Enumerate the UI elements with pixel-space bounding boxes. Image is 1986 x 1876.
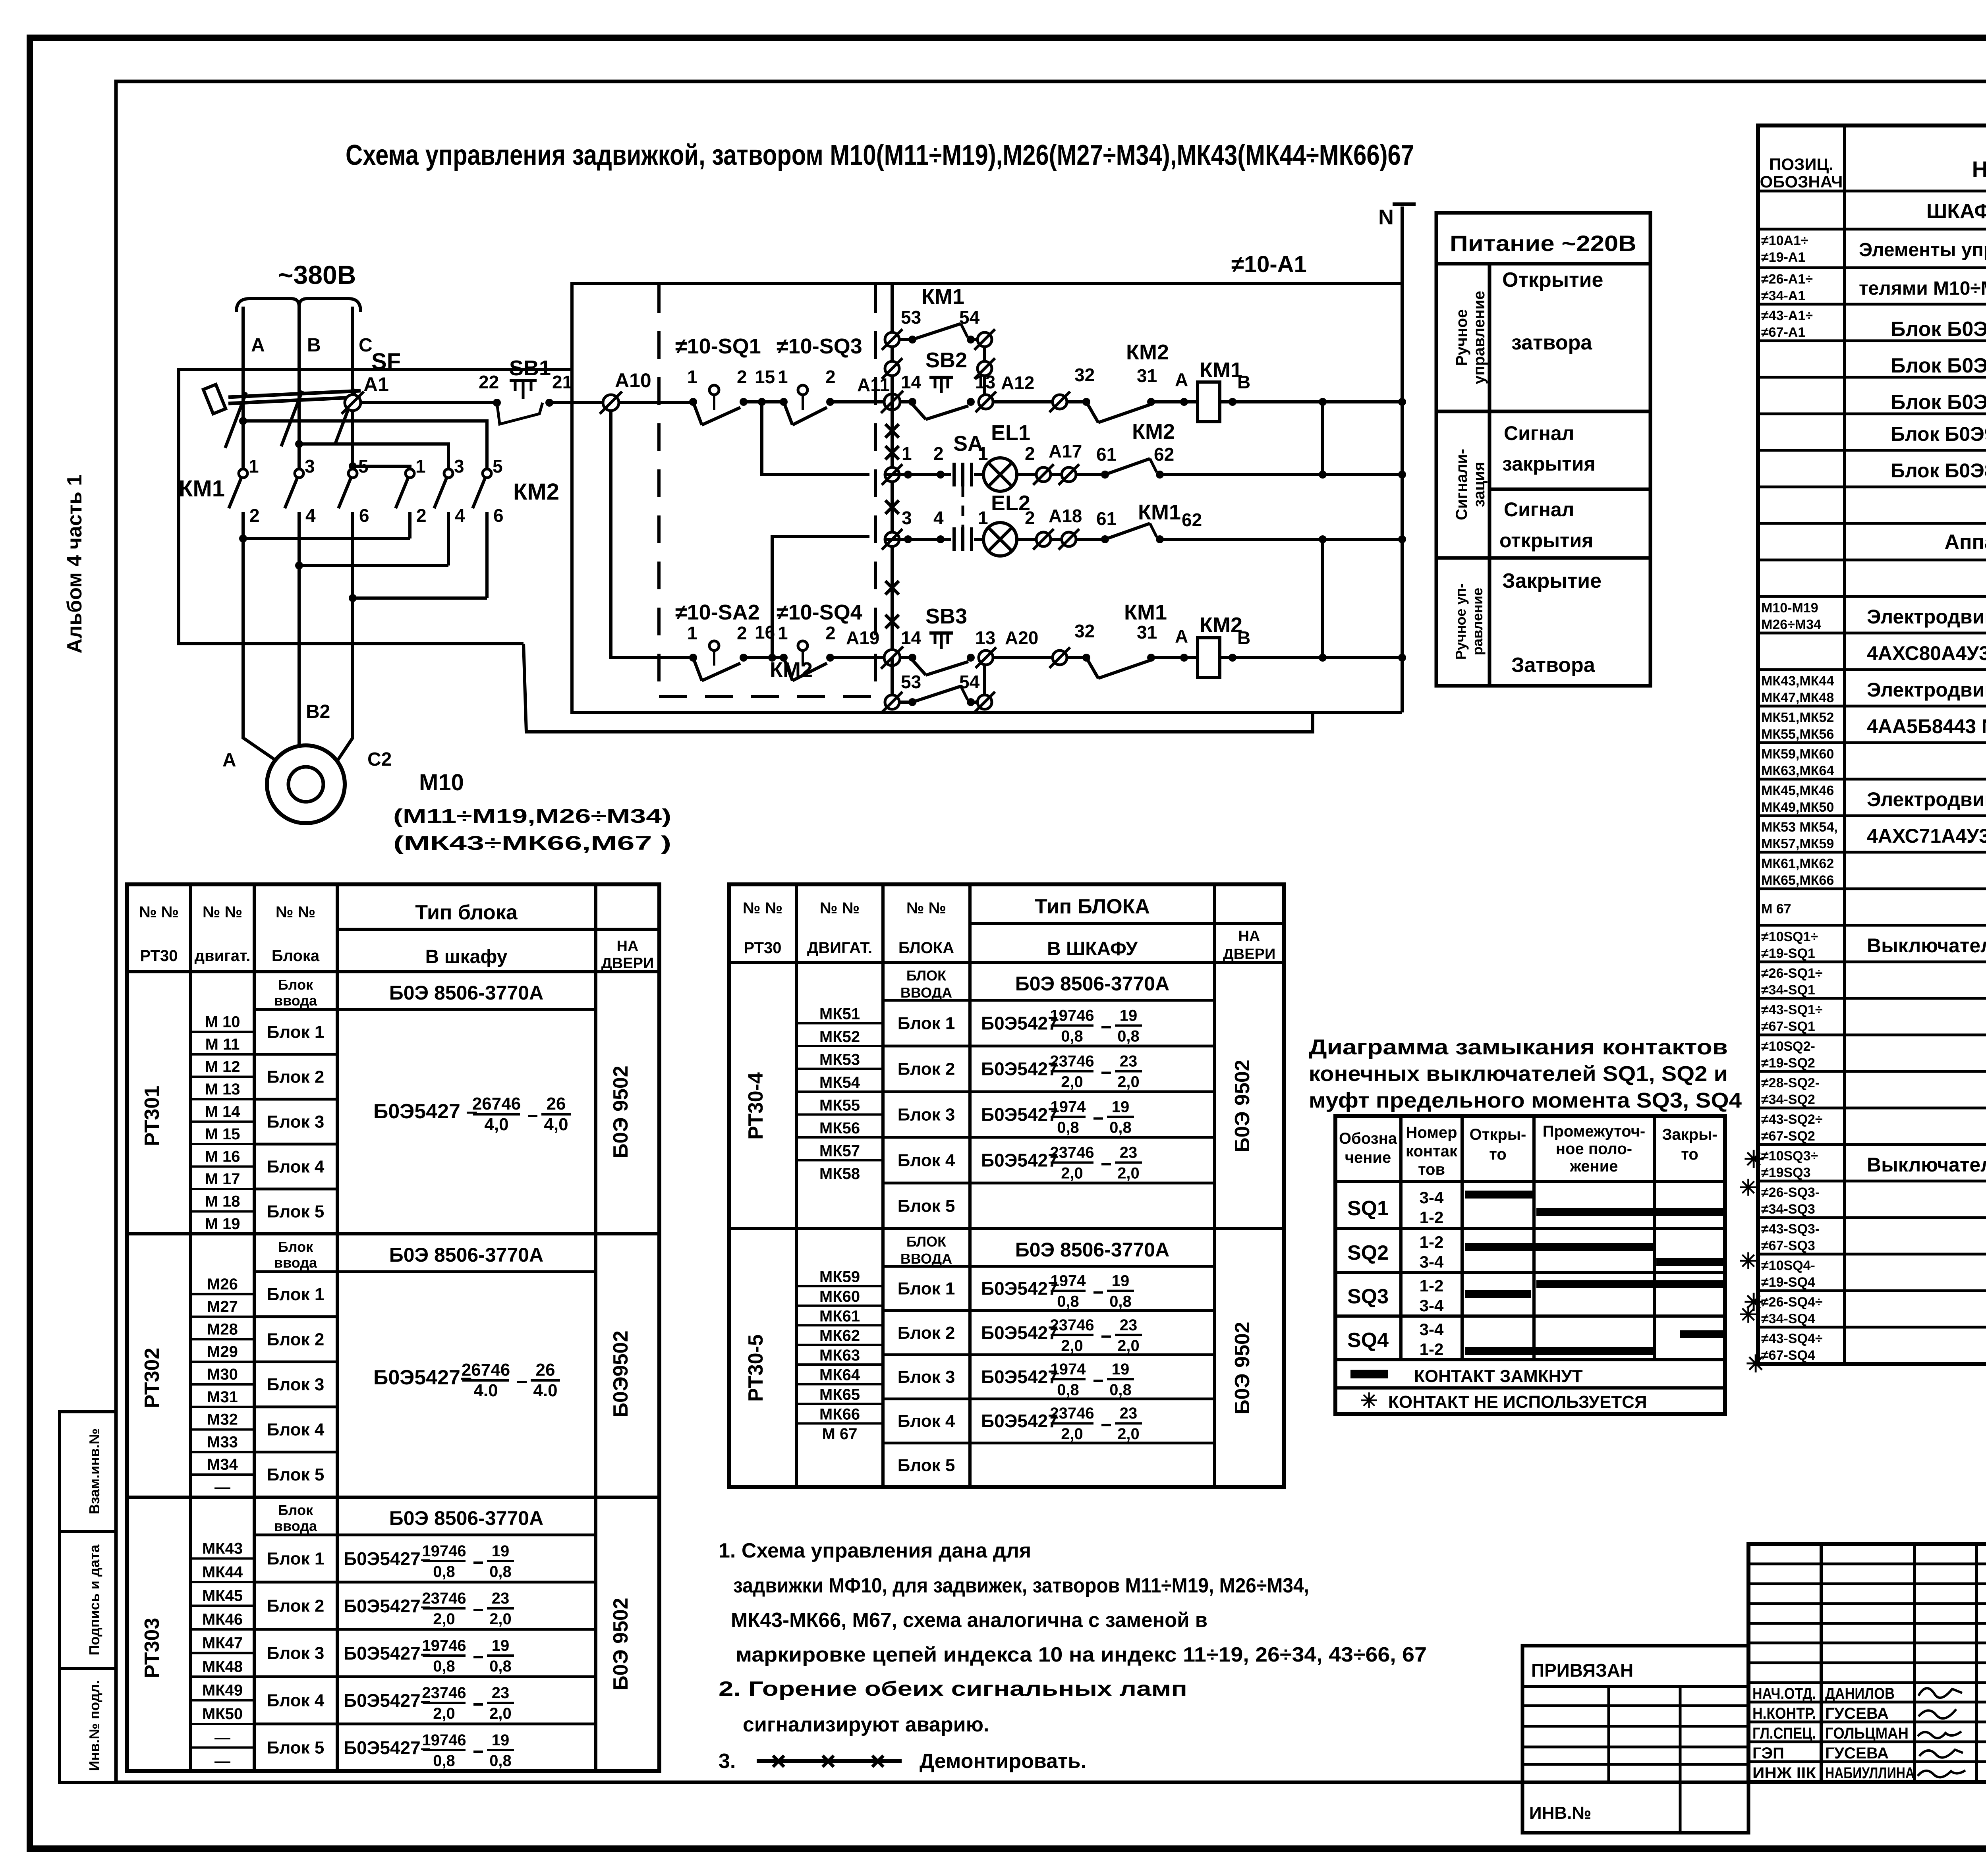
svg-text:SB1: SB1 bbox=[509, 356, 551, 380]
svg-text:26746: 26746 bbox=[472, 1094, 521, 1114]
svg-text:1. Схема управления дана дл: 1. Схема управления дана для bbox=[719, 1539, 1031, 1562]
svg-text:МК63,МК64: МК63,МК64 bbox=[1761, 763, 1834, 778]
svg-text:≠10-SQ4: ≠10-SQ4 bbox=[777, 600, 862, 624]
power legend closing bbox=[1502, 569, 1602, 677]
svg-text:Б0Э 8506-3770А: Б0Э 8506-3770А bbox=[389, 1507, 543, 1529]
svg-text:КМ2: КМ2 bbox=[1200, 613, 1242, 637]
svg-text:закрытия: закрытия bbox=[1502, 453, 1596, 475]
svg-text:зация: зация bbox=[1470, 462, 1488, 507]
svg-text:М 67: М 67 bbox=[822, 1425, 858, 1443]
svg-text:М29: М29 bbox=[207, 1343, 238, 1361]
svg-text:Блок 5: Блок 5 bbox=[267, 1738, 325, 1758]
svg-text:2: 2 bbox=[825, 367, 836, 387]
svg-text:2: 2 bbox=[737, 367, 747, 387]
svg-text:4,0: 4,0 bbox=[484, 1115, 508, 1134]
svg-text:2,0: 2,0 bbox=[1061, 1073, 1083, 1091]
svg-text:Блок Б0Э9502: Блок Б0Э9502 bbox=[1891, 423, 1986, 445]
contactor KM2 NC contact row1 bbox=[1082, 340, 1169, 423]
parts table header bbox=[1760, 155, 1986, 191]
svg-text:1: 1 bbox=[778, 367, 788, 387]
svg-text:≠19-А1: ≠19-А1 bbox=[1761, 250, 1805, 265]
svg-text:26: 26 bbox=[547, 1094, 566, 1114]
svg-text:КМ2: КМ2 bbox=[1126, 340, 1169, 364]
svg-text:ШКАФ РТ30-81: ШКАФ РТ30-81 bbox=[1926, 200, 1986, 223]
svg-text:М26÷М34: М26÷М34 bbox=[1761, 617, 1821, 632]
diagram title bbox=[1309, 1035, 1742, 1112]
svg-text:конечных выключателей SQ1, SQ: конечных выключателей SQ1, SQ2 и bbox=[1309, 1062, 1728, 1086]
contactor coil KM1 bbox=[1198, 358, 1250, 422]
svg-text:3: 3 bbox=[454, 456, 464, 477]
svg-text:ГУСЕВА: ГУСЕВА bbox=[1825, 1705, 1889, 1722]
svg-text:62: 62 bbox=[1182, 510, 1202, 530]
table 1 section RT302 bbox=[141, 1239, 632, 1496]
svg-text:62: 62 bbox=[1154, 444, 1174, 465]
parts row blok2 bbox=[1891, 348, 1986, 388]
svg-text:Б0Э 9502: Б0Э 9502 bbox=[609, 1065, 632, 1158]
node 61 row3 bbox=[1096, 508, 1117, 543]
svg-text:Обозна: Обозна bbox=[1339, 1130, 1397, 1147]
contact SQ4 bbox=[744, 623, 836, 681]
parts row elementy2 bbox=[1761, 272, 1986, 303]
svg-text:0,8: 0,8 bbox=[1109, 1293, 1132, 1310]
svg-text:Блок 4: Блок 4 bbox=[267, 1157, 325, 1177]
svg-text:≠34-SQ1: ≠34-SQ1 bbox=[1761, 982, 1815, 998]
svg-text:0,8: 0,8 bbox=[1117, 1028, 1140, 1045]
svg-text:SQ4: SQ4 bbox=[1347, 1329, 1389, 1352]
left margin stamp column bbox=[60, 1412, 116, 1782]
svg-text:Б0Э5427: Б0Э5427 bbox=[981, 1059, 1058, 1079]
svg-text:М 17: М 17 bbox=[205, 1170, 240, 1188]
relay cabinet boundary bbox=[572, 284, 1402, 712]
svg-text:Б0Э5427 –: Б0Э5427 – bbox=[373, 1100, 477, 1123]
svg-text:Демонтировать.: Демонтировать. bbox=[920, 1750, 1086, 1773]
block table 1 header bbox=[139, 901, 654, 972]
node 15 bbox=[755, 367, 775, 406]
svg-text:Блок 4: Блок 4 bbox=[267, 1691, 325, 1710]
svg-text:Открытие: Открытие bbox=[1502, 268, 1603, 291]
svg-text:≠19-SQ1: ≠19-SQ1 bbox=[1761, 946, 1815, 961]
svg-text:32: 32 bbox=[1074, 621, 1095, 641]
svg-text:МК56: МК56 bbox=[819, 1119, 860, 1137]
svg-text:А19: А19 bbox=[846, 627, 879, 648]
label ~380V bbox=[278, 260, 356, 290]
parts row shkaf bbox=[1926, 200, 1986, 223]
svg-text:Альбом 4 часть 1: Альбом 4 часть 1 bbox=[63, 475, 86, 654]
motor feed wire A bbox=[243, 538, 280, 763]
svg-text:МК59: МК59 bbox=[819, 1268, 860, 1285]
contactor coil KM2 bbox=[1198, 613, 1250, 677]
svg-text:РТ30-5: РТ30-5 bbox=[744, 1334, 767, 1402]
node A12 bbox=[976, 372, 1053, 412]
terminal row3 bbox=[1059, 529, 1105, 550]
demontage mark mid bbox=[885, 500, 899, 514]
parts row sq1b bbox=[1761, 966, 1823, 998]
svg-text:≠10-SA2: ≠10-SA2 bbox=[675, 600, 760, 624]
svg-text:0,8: 0,8 bbox=[433, 1658, 455, 1675]
node A19 bbox=[846, 627, 903, 669]
svg-text:Б0Э5427: Б0Э5427 bbox=[981, 1411, 1058, 1431]
wire SQ4 to chain bbox=[830, 656, 914, 659]
svg-text:Блок 1: Блок 1 bbox=[898, 1014, 955, 1033]
svg-text:ИНВ.№: ИНВ.№ bbox=[1529, 1803, 1591, 1823]
svg-text:затвора: затвора bbox=[1511, 331, 1592, 354]
node A row1 bbox=[1151, 369, 1198, 406]
svg-text:МК51: МК51 bbox=[819, 1006, 860, 1023]
svg-text:М30: М30 bbox=[207, 1366, 238, 1383]
wire row4 feed bbox=[611, 410, 693, 658]
svg-text:≠26-А1÷: ≠26-А1÷ bbox=[1761, 272, 1813, 287]
svg-text:М 14: М 14 bbox=[205, 1103, 241, 1121]
demontage marks upper bbox=[885, 424, 899, 459]
motor feed wire C bbox=[336, 598, 353, 763]
svg-text:Выключатель путевой: Выключатель путевой bbox=[1867, 934, 1986, 957]
svg-text:1: 1 bbox=[249, 456, 259, 477]
svg-text:—: — bbox=[214, 1478, 230, 1496]
svg-text:1: 1 bbox=[978, 508, 988, 528]
wire link row3-row4 bbox=[1321, 539, 1324, 658]
svg-text:МК50: МК50 bbox=[202, 1705, 243, 1723]
parts row sq2 bbox=[1761, 1039, 1815, 1071]
svg-text:1974: 1974 bbox=[1051, 1361, 1086, 1378]
svg-text:КМ1: КМ1 bbox=[922, 285, 964, 309]
svg-text:16: 16 bbox=[755, 622, 775, 643]
svg-text:задвижки МФ10, для задвижек, з: задвижки МФ10, для задвижек, затворов М1… bbox=[733, 1574, 1309, 1597]
svg-text:23746: 23746 bbox=[422, 1684, 466, 1702]
svg-text:открытия: открытия bbox=[1499, 529, 1593, 552]
svg-text:Блок: Блок bbox=[278, 977, 313, 993]
svg-text:то: то bbox=[1681, 1146, 1698, 1163]
svg-text:0,8: 0,8 bbox=[1057, 1293, 1079, 1310]
inv no box bbox=[1522, 1782, 1748, 1833]
svg-text:ДАНИЛОВ: ДАНИЛОВ bbox=[1825, 1685, 1895, 1702]
svg-text:23: 23 bbox=[1120, 1316, 1138, 1334]
contactor KM1 main contacts bbox=[179, 456, 369, 598]
svg-text:сигнализируют аварию.: сигнализируют аварию. bbox=[743, 1713, 989, 1736]
svg-text:МК58: МК58 bbox=[819, 1165, 860, 1183]
parts row blok1 bbox=[1761, 308, 1986, 352]
contactor KM1 aux contact row3 bbox=[1101, 500, 1202, 543]
svg-text:КМ1: КМ1 bbox=[1138, 500, 1181, 524]
svg-text:НА: НА bbox=[617, 938, 639, 955]
svg-text:19746: 19746 bbox=[422, 1637, 466, 1654]
svg-text:23: 23 bbox=[1120, 1053, 1138, 1070]
svg-text:—: — bbox=[214, 1752, 230, 1770]
svg-text:0,8: 0,8 bbox=[433, 1752, 455, 1770]
svg-text:N: N bbox=[1378, 205, 1394, 229]
branch wire phase C to KM2 bbox=[349, 462, 410, 470]
contactor KM2 aux contact row2 bbox=[1101, 420, 1175, 479]
parts row sq3b bbox=[1761, 1185, 1820, 1217]
svg-text:≠10А1÷: ≠10А1÷ bbox=[1761, 233, 1808, 248]
svg-text:телями М10÷М19,М26÷М34,МК43-МК: телями М10÷М19,М26÷М34,МК43-МК66,67 bbox=[1859, 278, 1986, 299]
diagram legend bbox=[1350, 1366, 1647, 1413]
svg-text:✳: ✳ bbox=[1739, 1302, 1758, 1327]
svg-text:1: 1 bbox=[902, 443, 912, 464]
svg-text:МК48: МК48 bbox=[202, 1658, 243, 1675]
circuit breaker SF bbox=[203, 349, 401, 448]
parts row blok3 bbox=[1891, 385, 1986, 425]
svg-text:МК45,МК46: МК45,МК46 bbox=[1761, 783, 1834, 798]
svg-text:2,0: 2,0 bbox=[1061, 1165, 1083, 1182]
svg-text:19: 19 bbox=[1112, 1098, 1130, 1116]
parts row sq1c bbox=[1761, 1002, 1823, 1034]
power legend signal bbox=[1453, 449, 1488, 520]
svg-text:5: 5 bbox=[358, 456, 369, 477]
svg-text:А1: А1 bbox=[363, 373, 389, 396]
svg-text:Электродвигатель~380В: Электродвигатель~380В bbox=[1867, 679, 1986, 701]
phase swap wire 2 bbox=[295, 562, 448, 569]
svg-text:14: 14 bbox=[901, 372, 922, 392]
svg-text:МК61: МК61 bbox=[819, 1307, 860, 1325]
contactor KM2 aux contact 53-54 bbox=[770, 658, 995, 712]
svg-text:3.: 3. bbox=[719, 1750, 736, 1773]
svg-text:2,0: 2,0 bbox=[1117, 1165, 1140, 1182]
wire N rail bbox=[1378, 204, 1416, 712]
svg-text:SB2: SB2 bbox=[925, 348, 967, 372]
power legend close signal bbox=[1502, 422, 1596, 475]
svg-text:21: 21 bbox=[552, 372, 572, 392]
asterisk marks bbox=[1744, 1146, 1766, 1377]
svg-text:МК49,МК50: МК49,МК50 bbox=[1761, 800, 1834, 815]
svg-text:19746: 19746 bbox=[1050, 1007, 1094, 1025]
svg-text:2,0: 2,0 bbox=[433, 1610, 455, 1628]
svg-text:КОНТАКТ НЕ ИСПОЛЬЗУЕТСЯ: КОНТАКТ НЕ ИСПОЛЬЗУЕТСЯ bbox=[1388, 1392, 1647, 1412]
contactor KM1 NC contact row4 bbox=[1082, 600, 1167, 678]
power legend manual upper bbox=[1453, 291, 1488, 384]
svg-text:ПРИВЯЗАН: ПРИВЯЗАН bbox=[1531, 1660, 1633, 1681]
wire row3 feed bbox=[772, 537, 869, 658]
svg-text:SQ2: SQ2 bbox=[1347, 1241, 1389, 1264]
power legend opening bbox=[1502, 268, 1603, 354]
svg-text:Схема управления задвижкой,: Схема управления задвижкой, затвором М10… bbox=[346, 139, 1414, 171]
parts row sq2b bbox=[1761, 1075, 1820, 1107]
svg-text:0,8: 0,8 bbox=[489, 1752, 512, 1770]
svg-text:Инв.№ подл.: Инв.№ подл. bbox=[86, 1680, 102, 1771]
svg-text:2: 2 bbox=[249, 505, 260, 526]
svg-text:Блока: Блока bbox=[272, 947, 320, 965]
svg-text:≠34-SQ4: ≠34-SQ4 bbox=[1761, 1311, 1815, 1326]
svg-text:✳: ✳ bbox=[1739, 1249, 1758, 1274]
svg-text:МК65: МК65 bbox=[819, 1386, 860, 1403]
svg-text:Блок Б0Э5427-: Блок Б0Э5427- bbox=[1891, 354, 1986, 377]
svg-text:≠19SQ3: ≠19SQ3 bbox=[1761, 1165, 1811, 1180]
svg-text:то: то bbox=[1489, 1146, 1507, 1163]
lamp EL1 bbox=[983, 421, 1037, 491]
svg-text:А18: А18 bbox=[1049, 506, 1082, 526]
svg-text:КМ2: КМ2 bbox=[770, 658, 813, 682]
power legend open signal bbox=[1499, 498, 1593, 552]
svg-text:2,0: 2,0 bbox=[1117, 1073, 1140, 1091]
svg-text:МК63: МК63 bbox=[819, 1347, 860, 1364]
svg-text:4АХС71А4У3 N= 0,65 кВт: 4АХС71А4У3 N= 0,65 кВт bbox=[1867, 825, 1986, 847]
svg-text:М 16: М 16 bbox=[205, 1148, 240, 1166]
svg-text:МК47,МК48: МК47,МК48 bbox=[1761, 690, 1834, 705]
svg-text:≠10-SQ3: ≠10-SQ3 bbox=[777, 334, 862, 358]
node A20 bbox=[976, 627, 1053, 668]
svg-text:3-4: 3-4 bbox=[1420, 1188, 1444, 1207]
brace 380V bbox=[236, 299, 361, 312]
title block signatures bbox=[1918, 1688, 1965, 1777]
svg-text:ГУСЕВА: ГУСЕВА bbox=[1825, 1745, 1889, 1762]
svg-text:26: 26 bbox=[536, 1360, 555, 1380]
parts row motor3c bbox=[1761, 856, 1834, 888]
svg-text:Б0Э5427–: Б0Э5427– bbox=[344, 1737, 431, 1758]
svg-text:МК65,МК66: МК65,МК66 bbox=[1761, 873, 1834, 888]
svg-text:М 15: М 15 bbox=[205, 1125, 240, 1143]
svg-text:≠34-SQ3: ≠34-SQ3 bbox=[1761, 1202, 1815, 1217]
svg-text:≠10SQ3÷: ≠10SQ3÷ bbox=[1761, 1148, 1818, 1164]
svg-text:М 12: М 12 bbox=[205, 1058, 240, 1076]
svg-text:53: 53 bbox=[901, 307, 921, 328]
drawing title bbox=[346, 139, 1414, 171]
terminal chain node row3 bbox=[882, 529, 908, 550]
svg-text:МК62: МК62 bbox=[819, 1327, 860, 1345]
svg-text:23: 23 bbox=[1120, 1405, 1138, 1422]
contactor KM1 aux contact 53-54 bbox=[882, 285, 995, 402]
svg-text:чение: чение bbox=[1345, 1149, 1391, 1166]
svg-text:SF: SF bbox=[371, 349, 401, 374]
wire row2 to N bbox=[1160, 471, 1406, 479]
demontage marks lower bbox=[885, 581, 899, 628]
svg-text:Б0Э 8506-3770А: Б0Э 8506-3770А bbox=[1015, 1239, 1169, 1261]
svg-text:6: 6 bbox=[493, 505, 504, 526]
svg-text:2,0: 2,0 bbox=[433, 1705, 455, 1722]
contact SQ1 bbox=[687, 367, 748, 425]
svg-text:(МК43÷МК66,М67 ): (МК43÷МК66,М67 ) bbox=[393, 832, 671, 854]
svg-text:Б0Э5427: Б0Э5427 bbox=[981, 1278, 1058, 1299]
svg-text:≠43-SQ1÷: ≠43-SQ1÷ bbox=[1761, 1002, 1823, 1017]
svg-text:ввода: ввода bbox=[274, 992, 317, 1009]
svg-text:1: 1 bbox=[687, 367, 697, 387]
node A row4 bbox=[1151, 626, 1198, 662]
diagram header bbox=[1339, 1123, 1717, 1178]
note 3 bbox=[719, 1750, 1086, 1773]
svg-text:ГОЛЬЦМАН: ГОЛЬЦМАН bbox=[1825, 1725, 1909, 1742]
svg-text:Затвора: Затвора bbox=[1511, 654, 1596, 677]
svg-text:ввода: ввода bbox=[274, 1518, 317, 1534]
motor feed wire B bbox=[298, 566, 301, 745]
svg-text:≠26-SQ4÷: ≠26-SQ4÷ bbox=[1761, 1295, 1823, 1310]
svg-text:Б0Э5427: Б0Э5427 bbox=[981, 1322, 1058, 1343]
svg-text:23746: 23746 bbox=[1050, 1316, 1094, 1334]
svg-text:Блок 3: Блок 3 bbox=[267, 1375, 325, 1394]
svg-text:А: А bbox=[222, 750, 236, 771]
label 10-SA2 bbox=[675, 600, 760, 624]
node 1 row2 bbox=[902, 443, 941, 479]
block table 2 frame bbox=[729, 884, 1284, 1487]
svg-text:ВВОДА: ВВОДА bbox=[900, 984, 952, 1001]
svg-text:Блок 4: Блок 4 bbox=[898, 1151, 955, 1170]
svg-text:РТ30: РТ30 bbox=[140, 947, 178, 965]
svg-text:М28: М28 bbox=[207, 1320, 238, 1338]
diagram frame bbox=[1335, 1116, 1725, 1414]
svg-text:SB3: SB3 bbox=[925, 604, 967, 628]
svg-text:Б0Э 9502: Б0Э 9502 bbox=[609, 1598, 632, 1690]
note 2 bbox=[719, 1677, 1187, 1736]
svg-text:Блок Б0Э8506-3770А: Блок Б0Э8506-3770А bbox=[1891, 459, 1986, 482]
svg-text:КМ2: КМ2 bbox=[1132, 420, 1175, 444]
svg-text:МК46: МК46 bbox=[202, 1611, 243, 1628]
svg-text:Номер: Номер bbox=[1406, 1124, 1457, 1141]
svg-text:МК57,МК59: МК57,МК59 bbox=[1761, 836, 1834, 851]
svg-text:≠67-SQ4: ≠67-SQ4 bbox=[1761, 1348, 1815, 1363]
svg-text:М 19: М 19 bbox=[205, 1215, 240, 1233]
svg-text:✳: ✳ bbox=[1739, 1175, 1758, 1200]
svg-text:А20: А20 bbox=[1005, 627, 1038, 648]
svg-text:МК43-МК66, М67, схема аналоги: МК43-МК66, М67, схема аналогична с замен… bbox=[731, 1609, 1207, 1632]
svg-text:≠19-SQ4: ≠19-SQ4 bbox=[1761, 1275, 1815, 1290]
contactor KM2 main contacts bbox=[396, 456, 559, 598]
svg-text:НАБИУЛЛИНА: НАБИУЛЛИНА bbox=[1825, 1764, 1915, 1782]
svg-text:2,0: 2,0 bbox=[1061, 1337, 1083, 1355]
svg-text:А: А bbox=[1175, 626, 1188, 647]
svg-text:19746: 19746 bbox=[422, 1542, 466, 1560]
svg-text:КМ2: КМ2 bbox=[513, 479, 559, 505]
svg-text:4АА5Б8443 N=0,18 кВт.: 4АА5Б8443 N=0,18 кВт. bbox=[1867, 715, 1986, 737]
parts row motor2c bbox=[1761, 747, 1834, 778]
parts row motor1b bbox=[1867, 642, 1986, 668]
svg-text:М 67: М 67 bbox=[1761, 901, 1791, 917]
title block grid bbox=[1748, 1544, 1986, 1782]
svg-text:РТ30: РТ30 bbox=[744, 939, 781, 957]
svg-text:МК43,МК44: МК43,МК44 bbox=[1761, 674, 1834, 689]
svg-text:≠43-SQ2÷: ≠43-SQ2÷ bbox=[1761, 1112, 1823, 1127]
svg-text:2: 2 bbox=[933, 443, 944, 464]
svg-text:Б0Э5427: Б0Э5427 bbox=[981, 1366, 1058, 1387]
parts row blok4 bbox=[1891, 423, 1986, 446]
svg-text:БЛОКА: БЛОКА bbox=[898, 939, 954, 957]
svg-text:≠43-А1÷: ≠43-А1÷ bbox=[1761, 308, 1813, 323]
svg-text:4: 4 bbox=[305, 505, 316, 526]
svg-text:≠26-SQ3-: ≠26-SQ3- bbox=[1761, 1185, 1820, 1200]
svg-text:Блок 5: Блок 5 bbox=[267, 1465, 325, 1484]
svg-text:2: 2 bbox=[1025, 443, 1035, 464]
svg-text:32: 32 bbox=[1074, 365, 1095, 385]
contact SA2 bbox=[687, 623, 748, 681]
svg-text:4.0: 4.0 bbox=[473, 1381, 498, 1400]
svg-text:Блок 2: Блок 2 bbox=[267, 1596, 325, 1616]
svg-text:23: 23 bbox=[1120, 1144, 1138, 1162]
left margin label Альбом 4 часть 1 bbox=[63, 475, 86, 654]
wire row4 to N bbox=[1220, 654, 1406, 662]
parts row motor2 bbox=[1761, 674, 1986, 705]
svg-text:≠26-SQ1÷: ≠26-SQ1÷ bbox=[1761, 966, 1823, 981]
parts row sq2c bbox=[1761, 1112, 1823, 1144]
svg-text:2: 2 bbox=[825, 623, 836, 643]
svg-text:№ №: № № bbox=[203, 903, 242, 921]
svg-text:4: 4 bbox=[455, 505, 465, 526]
svg-text:Б0Э 9502: Б0Э 9502 bbox=[1231, 1060, 1254, 1152]
node 16 bbox=[755, 622, 776, 662]
motor M10 bbox=[222, 701, 392, 823]
terminal 32 row1 bbox=[1049, 365, 1095, 412]
node 3 row3 bbox=[902, 508, 941, 543]
svg-text:~380В: ~380В bbox=[278, 260, 356, 290]
svg-text:Электродвигатель ~380В: Электродвигатель ~380В bbox=[1867, 788, 1986, 811]
wire bottom link bbox=[524, 644, 1313, 732]
svg-text:2,0: 2,0 bbox=[1117, 1425, 1140, 1443]
svg-text:≠10SQ4-: ≠10SQ4- bbox=[1761, 1258, 1815, 1273]
svg-text:Блок Б0Э5427-: Блок Б0Э5427- bbox=[1891, 318, 1986, 341]
parts row sq4b bbox=[1761, 1295, 1823, 1326]
svg-text:≠19-SQ2: ≠19-SQ2 bbox=[1761, 1056, 1815, 1071]
svg-text:ное поло-: ное поло- bbox=[1556, 1140, 1632, 1158]
svg-text:БЛОК: БЛОК bbox=[906, 1233, 947, 1250]
svg-text:контак: контак bbox=[1406, 1143, 1458, 1160]
svg-text:М 10: М 10 bbox=[205, 1013, 240, 1031]
terminal chain bbox=[891, 284, 894, 702]
pushbutton SB1 bbox=[479, 356, 572, 424]
